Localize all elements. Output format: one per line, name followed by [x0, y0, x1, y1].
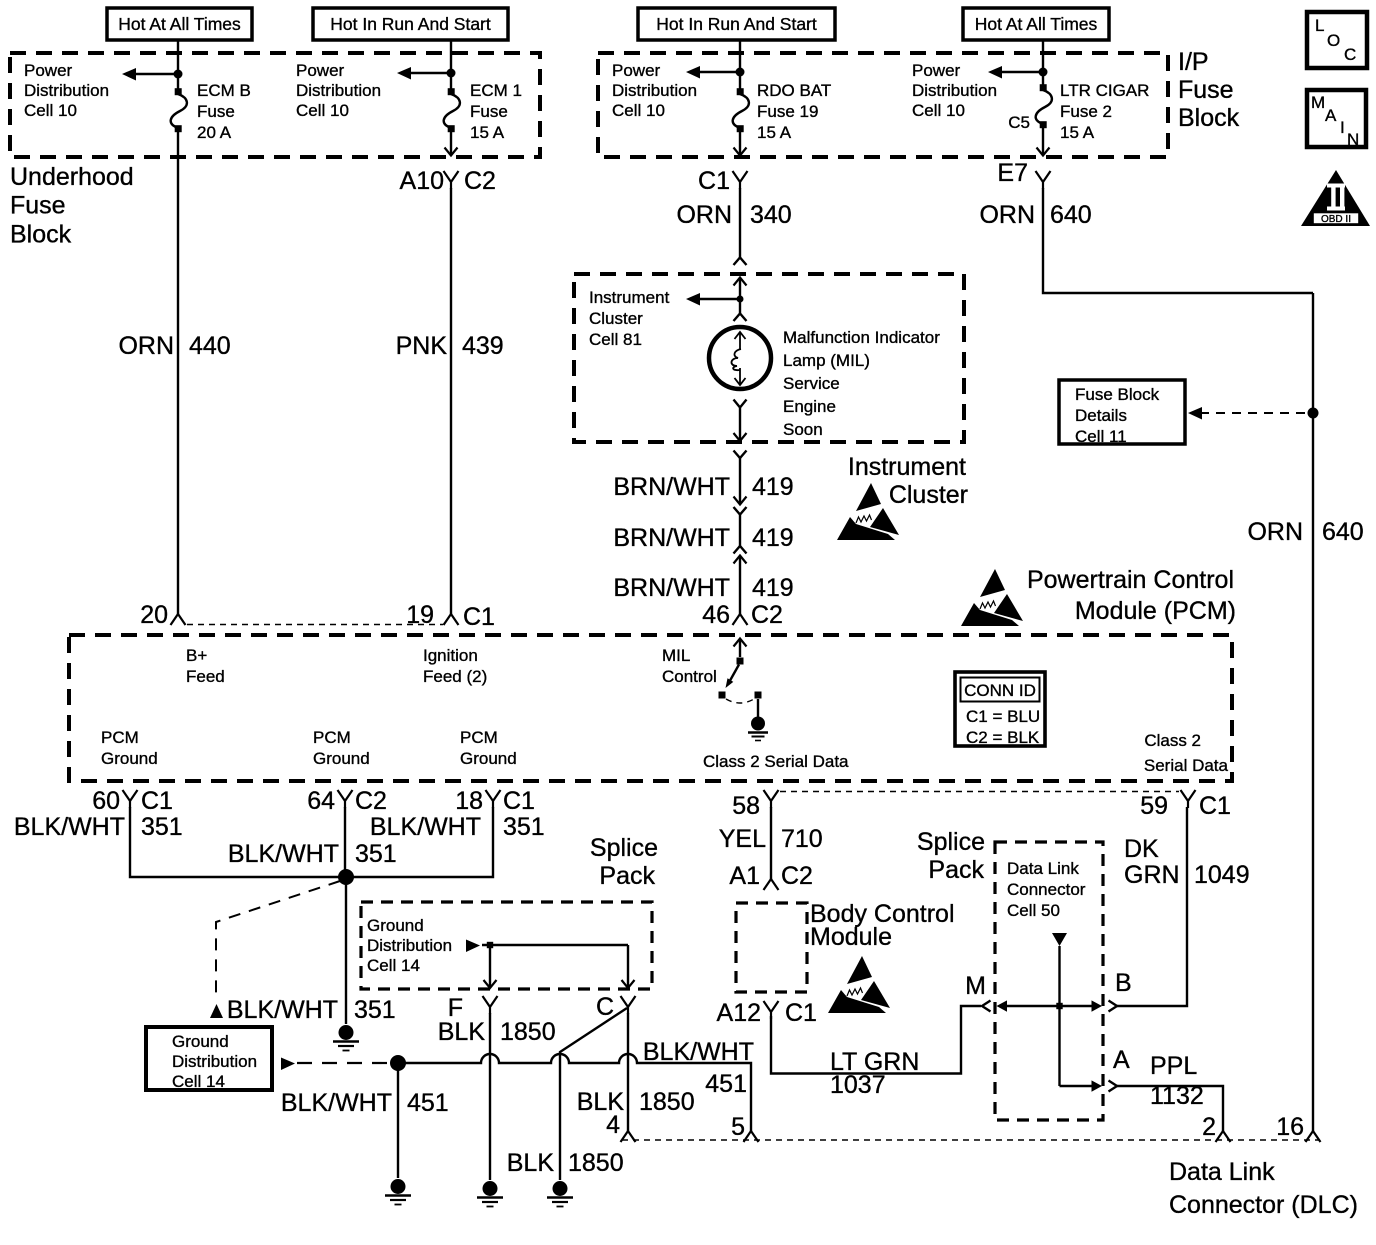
svg-text:Cell 10: Cell 10	[296, 101, 349, 120]
pin A12 C1 of BCM	[717, 999, 817, 1027]
label BLK/WHT 451 (ground stub)	[281, 1089, 449, 1117]
svg-text:CONN ID: CONN ID	[964, 681, 1036, 700]
svg-text:451: 451	[705, 1070, 747, 1098]
wire splice to ground	[345, 877, 347, 1024]
label Underhood Fuse Block	[10, 163, 134, 248]
label BLK 1850 (lower ground wire)	[507, 1149, 624, 1177]
label BLK/WHT 351 (ground stub)	[227, 996, 396, 1024]
wire BRN/WHT 419 segment 3	[739, 556, 741, 615]
connector C1	[698, 167, 747, 195]
label DK GRN 1049	[1124, 835, 1250, 889]
wire C down to DLC pin 4	[627, 1013, 629, 1131]
svg-text:Details: Details	[1075, 406, 1127, 425]
svg-text:Instrument: Instrument	[848, 453, 966, 481]
svg-text:Lamp (MIL): Lamp (MIL)	[783, 351, 870, 370]
svg-text:Distribution: Distribution	[172, 1052, 257, 1071]
svg-text:Ignition: Ignition	[423, 646, 478, 665]
svg-text:15 A: 15 A	[757, 123, 792, 142]
svg-text:Connector (DLC): Connector (DLC)	[1169, 1191, 1358, 1219]
svg-text:Control: Control	[662, 667, 717, 686]
PCM dashed box	[69, 635, 1232, 781]
chevron below node	[734, 314, 747, 322]
svg-text:Instrument: Instrument	[589, 288, 670, 307]
svg-text:PPL: PPL	[1150, 1052, 1197, 1080]
svg-text:440: 440	[189, 332, 231, 360]
svg-text:Splice: Splice	[590, 834, 658, 862]
svg-text:451: 451	[407, 1089, 449, 1117]
svg-text:Cell 10: Cell 10	[24, 101, 77, 120]
svg-text:Cell 81: Cell 81	[589, 330, 642, 349]
svg-text:1037: 1037	[830, 1071, 886, 1099]
ESD symbol (PCM)	[961, 569, 1023, 626]
svg-text:Pack: Pack	[928, 856, 984, 884]
svg-text:C1: C1	[698, 167, 730, 195]
svg-text:46: 46	[702, 601, 730, 629]
svg-text:Engine: Engine	[783, 397, 836, 416]
pin B connector	[1109, 969, 1132, 1012]
svg-text:Hot At All Times: Hot At All Times	[975, 14, 1098, 34]
label MIL Control	[662, 646, 717, 686]
arrow from Ground Distribution box	[281, 1058, 392, 1071]
svg-text:Fuse 19: Fuse 19	[757, 102, 818, 121]
svg-text:Cell 14: Cell 14	[367, 956, 420, 975]
svg-text:Module: Module	[810, 923, 892, 951]
svg-text:Fuse 2: Fuse 2	[1060, 102, 1112, 121]
Ground Distribution Cell 14 dashed box (upper)	[361, 902, 652, 989]
header box Hot In Run And Start (right)	[638, 8, 835, 40]
label RDO BAT Fuse 19 15 A	[757, 81, 831, 142]
svg-text:C1: C1	[463, 603, 495, 631]
svg-text:L: L	[1315, 16, 1324, 35]
svg-text:BRN/WHT: BRN/WHT	[613, 473, 730, 501]
arrow to Power Distribution (3)	[686, 66, 740, 79]
label BRN/WHT 419 (2)	[613, 524, 793, 552]
svg-text:GRN: GRN	[1124, 861, 1180, 889]
svg-text:Ground: Ground	[101, 749, 158, 768]
wire from Hot In Run And Start to fuse RDO BAT	[739, 40, 741, 89]
label Data Link Connector (DLC)	[1169, 1158, 1358, 1219]
pin A connector	[1109, 1046, 1131, 1092]
svg-text:Power: Power	[24, 61, 73, 80]
svg-text:C: C	[596, 993, 614, 1021]
svg-text:C1: C1	[503, 787, 535, 815]
svg-text:5: 5	[731, 1113, 745, 1141]
svg-text:Cell 50: Cell 50	[1007, 901, 1060, 920]
svg-text:M: M	[1311, 93, 1325, 112]
svg-text:Splice: Splice	[917, 828, 985, 856]
svg-text:Distribution: Distribution	[24, 81, 109, 100]
label PNK 439	[396, 332, 504, 360]
ground G-F	[477, 1181, 503, 1207]
wire from Hot At All Times to fuse LTR CIGAR	[1042, 40, 1044, 85]
svg-text:PCM: PCM	[460, 728, 498, 747]
svg-text:Cluster: Cluster	[589, 309, 643, 328]
svg-text:1132: 1132	[1150, 1082, 1204, 1110]
svg-text:BLK/WHT: BLK/WHT	[281, 1089, 392, 1117]
svg-text:Distribution: Distribution	[912, 81, 997, 100]
svg-text:439: 439	[462, 332, 504, 360]
svg-text:Hot In Run And Start: Hot In Run And Start	[656, 14, 817, 34]
svg-text:Powertrain Control: Powertrain Control	[1027, 566, 1234, 594]
svg-text:C2: C2	[464, 167, 496, 195]
dashed arrow to Fuse Block Details	[1188, 407, 1307, 420]
svg-text:Fuse: Fuse	[470, 102, 508, 121]
arrow to Instrument Cluster label	[686, 293, 744, 306]
svg-text:4: 4	[606, 1111, 620, 1139]
svg-text:Hot At All Times: Hot At All Times	[118, 14, 241, 34]
wire fuse RDO BAT to connector, arrow	[734, 131, 747, 156]
connector A1 C2 of BCM	[729, 862, 813, 890]
double arrow M to B	[997, 1000, 1103, 1011]
svg-text:351: 351	[354, 996, 396, 1024]
fuse RDO BAT Fuse 19 15 A	[733, 88, 749, 132]
lamp MIL bulb	[709, 327, 771, 389]
svg-text:Fuse Block: Fuse Block	[1075, 385, 1160, 404]
svg-text:20 A: 20 A	[197, 123, 232, 142]
header box Hot At All Times (right)	[963, 8, 1109, 40]
svg-text:ORN: ORN	[118, 332, 174, 360]
wire F down to ground	[489, 1013, 491, 1180]
wire PNK 439 (A10 to pin 19)	[450, 188, 452, 614]
svg-text:710: 710	[781, 825, 823, 853]
svg-text:BLK/WHT: BLK/WHT	[643, 1038, 754, 1066]
svg-text:Class 2: Class 2	[1144, 731, 1201, 750]
svg-text:Underhood: Underhood	[10, 163, 134, 191]
svg-text:PNK: PNK	[396, 332, 448, 360]
header box Hot At All Times (left)	[107, 8, 252, 40]
svg-text:I/P: I/P	[1178, 48, 1209, 76]
label Body Control Module	[810, 900, 955, 951]
wire into lamp	[739, 278, 741, 314]
Ground Distribution Cell 14 box (solid)	[146, 1027, 272, 1091]
label YEL 710	[719, 825, 823, 853]
svg-text:I: I	[1340, 118, 1345, 137]
wire from Hot At All Times to fuse ECM B	[177, 40, 179, 89]
label Instrument Cluster Cell 81	[589, 288, 670, 349]
svg-text:BLK/WHT: BLK/WHT	[370, 813, 481, 841]
svg-text:Hot In Run And Start: Hot In Run And Start	[330, 14, 491, 34]
pin 20 of PCM	[140, 601, 185, 629]
svg-text:Power: Power	[612, 61, 661, 80]
ground G451	[385, 1179, 411, 1205]
svg-text:B: B	[1115, 969, 1132, 997]
svg-text:64: 64	[307, 787, 335, 815]
svg-text:Pack: Pack	[599, 862, 655, 890]
label BRN/WHT 419 (1)	[613, 473, 793, 501]
svg-text:RDO BAT: RDO BAT	[757, 81, 831, 100]
Power Distribution Cell 10 (box 4)	[912, 61, 997, 120]
svg-text:YEL: YEL	[719, 825, 766, 853]
Body Control Module dashed box	[736, 903, 807, 992]
pin M connector	[965, 972, 990, 1012]
label Malfunction Indicator Lamp (MIL) Service Engine Soon	[783, 328, 940, 439]
DLC pin 2	[1202, 1113, 1230, 1142]
wire ORN 340 down to instrument cluster	[739, 188, 741, 258]
svg-text:A1: A1	[729, 862, 760, 890]
label LTR CIGAR Fuse 2 15 A	[1060, 81, 1149, 142]
svg-text:Fuse: Fuse	[197, 102, 235, 121]
svg-text:60: 60	[92, 787, 120, 815]
DLC dashed top line	[622, 1139, 1319, 1141]
pin 64 C2 of PCM	[307, 787, 387, 815]
arrow into pin A	[1060, 1080, 1103, 1091]
inline connector 2 (chevron + arrow up)	[734, 546, 747, 564]
svg-text:15 A: 15 A	[1060, 123, 1095, 142]
wire pin64 down to splice	[344, 807, 346, 877]
label BLK/WHT 351 (left)	[14, 813, 183, 841]
ground G-C	[547, 1181, 573, 1207]
svg-text:Data Link: Data Link	[1169, 1158, 1275, 1186]
splice pack junction mark	[1056, 1003, 1062, 1009]
svg-text:419: 419	[752, 574, 794, 602]
ESD symbol (instrument cluster)	[837, 483, 899, 540]
junction node ground bus	[390, 1055, 406, 1071]
svg-text:BLK: BLK	[507, 1149, 555, 1177]
arrow to Power Distribution (4)	[988, 66, 1043, 79]
svg-text:C: C	[1344, 45, 1356, 64]
svg-text:Power: Power	[912, 61, 961, 80]
Instrument Cluster dashed box	[574, 274, 964, 442]
DLC pin 5	[731, 1113, 758, 1142]
svg-text:C1: C1	[1199, 792, 1231, 820]
svg-text:Connector: Connector	[1007, 880, 1086, 899]
MAIN box	[1307, 90, 1366, 149]
ground bus wire with hops	[398, 1054, 751, 1131]
svg-text:Cell 11: Cell 11	[1075, 427, 1127, 446]
svg-text:59: 59	[1140, 792, 1168, 820]
label PCM Ground (2)	[313, 728, 370, 768]
svg-text:58: 58	[732, 792, 760, 820]
label ORN 440	[118, 332, 230, 360]
svg-text:20: 20	[140, 601, 168, 629]
svg-text:ECM B: ECM B	[197, 81, 251, 100]
junction node	[736, 68, 745, 77]
wire junction down to ground	[397, 1063, 399, 1178]
label Class 2 Serial Data (right)	[1144, 731, 1229, 775]
connector E7	[997, 159, 1050, 189]
label PCM Ground (1)	[101, 728, 158, 768]
svg-text:C2: C2	[781, 862, 813, 890]
label Splice Pack (right)	[917, 828, 985, 884]
junction node	[174, 70, 183, 79]
svg-text:Fuse: Fuse	[10, 192, 66, 220]
label LT GRN 1037	[830, 1048, 919, 1099]
svg-text:DK: DK	[1124, 835, 1159, 863]
svg-text:Distribution: Distribution	[367, 936, 452, 955]
svg-text:ORN: ORN	[676, 201, 732, 229]
wire BRN/WHT 419 segment 2	[739, 515, 741, 547]
svg-text:1850: 1850	[568, 1149, 624, 1177]
wire BRN/WHT 419 segment 1	[739, 458, 741, 505]
ESD symbol (BCM)	[828, 956, 890, 1013]
svg-text:A10: A10	[400, 167, 444, 195]
Data Link Connector Cell 50 dashed box	[995, 842, 1103, 1120]
junction node	[447, 69, 456, 78]
svg-text:B+: B+	[186, 646, 207, 665]
svg-text:18: 18	[455, 787, 483, 815]
label PCM Ground (3)	[460, 728, 517, 768]
svg-text:ORN: ORN	[1247, 518, 1303, 546]
thin dashed link pin20-pin19	[187, 624, 443, 626]
pin 18 C1 of PCM	[455, 787, 535, 815]
pin 46 C2 of PCM	[702, 601, 783, 629]
Underhood Fuse Block dashed box	[10, 53, 540, 157]
svg-text:640: 640	[1050, 201, 1092, 229]
svg-text:C1 = BLU: C1 = BLU	[966, 707, 1040, 726]
svg-text:419: 419	[752, 524, 794, 552]
svg-text:1850: 1850	[639, 1088, 695, 1116]
svg-text:BLK/WHT: BLK/WHT	[14, 813, 125, 841]
svg-text:351: 351	[355, 840, 397, 868]
connector below lamp	[734, 400, 747, 442]
svg-text:419: 419	[752, 473, 794, 501]
svg-text:C1: C1	[141, 787, 173, 815]
svg-text:MIL: MIL	[662, 646, 690, 665]
label BLK 1850 (F wire)	[438, 1018, 556, 1046]
label Powertrain Control Module (PCM)	[1027, 566, 1236, 625]
svg-text:C2: C2	[355, 787, 387, 815]
svg-text:LTR CIGAR: LTR CIGAR	[1060, 81, 1149, 100]
Power Distribution Cell 10 (box 3)	[612, 61, 697, 120]
diagonal wire from pin C to ground leg	[560, 1008, 627, 1180]
svg-text:C5: C5	[1008, 113, 1030, 132]
wire PPL 1132	[1117, 1086, 1223, 1131]
svg-text:E7: E7	[997, 159, 1028, 187]
svg-text:Ground: Ground	[313, 749, 370, 768]
svg-text:Cell 10: Cell 10	[912, 101, 965, 120]
wire LT GRN 1037	[771, 1006, 981, 1074]
svg-text:2: 2	[1202, 1113, 1216, 1141]
svg-text:Class 2 Serial Data: Class 2 Serial Data	[703, 752, 849, 771]
svg-text:Data Link: Data Link	[1007, 859, 1079, 878]
ground G351	[333, 1025, 359, 1051]
svg-text:Cell 10: Cell 10	[612, 101, 665, 120]
svg-text:C2: C2	[751, 601, 783, 629]
svg-text:Malfunction Indicator: Malfunction Indicator	[783, 328, 940, 347]
label Instrument Cluster (big)	[848, 453, 968, 509]
wire fuse LTR CIGAR to connector, arrow	[1037, 127, 1050, 156]
svg-text:Fuse: Fuse	[1178, 76, 1234, 104]
svg-text:Power: Power	[296, 61, 345, 80]
svg-text:640: 640	[1322, 518, 1364, 546]
svg-text:Feed (2): Feed (2)	[423, 667, 487, 686]
Fuse Block Details Cell 11 box	[1059, 380, 1185, 446]
label Ignition Feed (2)	[423, 646, 487, 686]
label ECM 1 Fuse 15 A	[470, 81, 522, 142]
arrow to Power Distribution (1)	[122, 68, 178, 81]
svg-text:O: O	[1327, 31, 1340, 50]
label ORN 640 (right rail)	[1247, 518, 1363, 546]
arrow and feed inside ground distribution box	[466, 940, 635, 989]
DLC pin 4	[606, 1111, 635, 1142]
pin 60 C1 of PCM	[92, 787, 173, 815]
svg-text:BLK/WHT: BLK/WHT	[227, 996, 338, 1024]
svg-text:OBD II: OBD II	[1321, 214, 1351, 225]
splice pack feed triangle	[1052, 933, 1067, 946]
label ORN 640 (top)	[979, 201, 1091, 229]
connector A10 C2	[400, 167, 496, 195]
MIL control switch	[719, 639, 769, 741]
svg-text:Service: Service	[783, 374, 840, 393]
label BLK/WHT 451 (to DLC pin 5)	[643, 1038, 754, 1098]
svg-text:Module (PCM): Module (PCM)	[1075, 597, 1236, 625]
svg-text:Ground: Ground	[460, 749, 517, 768]
wire DK GRN 1049	[1117, 807, 1187, 1006]
svg-text:A: A	[1113, 1046, 1130, 1074]
svg-text:Ground: Ground	[172, 1032, 229, 1051]
svg-text:Ground: Ground	[367, 916, 424, 935]
svg-text:A12: A12	[717, 999, 761, 1027]
LOC box	[1307, 12, 1367, 68]
label ORN 340	[676, 201, 791, 229]
pin F connector	[448, 994, 498, 1022]
svg-text:Feed: Feed	[186, 667, 225, 686]
svg-text:Serial Data: Serial Data	[1144, 756, 1229, 775]
svg-text:Cluster: Cluster	[889, 481, 968, 509]
svg-text:340: 340	[750, 201, 792, 229]
label I/P Fuse Block	[1178, 48, 1240, 132]
fuse ECM 1 15 A	[444, 88, 460, 132]
label BLK 1850 (pin 4 wire)	[577, 1088, 695, 1116]
svg-text:Soon: Soon	[783, 420, 823, 439]
wire ORN 640 from E7 to right rail	[1043, 188, 1313, 293]
I/P Fuse Block dashed box	[598, 53, 1168, 157]
Power Distribution Cell 10 (box 1)	[24, 61, 109, 120]
label BRN/WHT 419 (3)	[613, 574, 793, 602]
inline connector 1 (arrow down + chevron)	[734, 497, 747, 515]
pin C connector	[596, 993, 636, 1021]
arrow to Power Distribution (2)	[397, 67, 451, 80]
svg-text:351: 351	[141, 813, 183, 841]
wire pin60 down and across	[130, 807, 339, 877]
pin 19 C1 of PCM	[406, 601, 495, 631]
Power Distribution Cell 10 (box 2)	[296, 61, 381, 120]
header box Hot In Run And Start (left)	[313, 8, 508, 40]
svg-text:351: 351	[503, 813, 545, 841]
svg-text:Distribution: Distribution	[296, 81, 381, 100]
svg-text:ECM 1: ECM 1	[470, 81, 522, 100]
thin dashed link pin58-pin59	[780, 791, 1179, 793]
label ECM B Fuse 20 A	[197, 81, 251, 142]
svg-text:PCM: PCM	[313, 728, 351, 747]
label BLK/WHT 351 (right)	[370, 813, 545, 841]
pin 59 C1 of PCM	[1140, 790, 1231, 820]
svg-text:15 A: 15 A	[470, 123, 505, 142]
wire ORN 640 right rail down to DLC pin 16	[1312, 293, 1314, 1131]
svg-text:Block: Block	[1178, 104, 1240, 132]
splice junction node S351	[338, 869, 354, 885]
label B+ Feed	[186, 646, 225, 686]
DLC pin 16	[1276, 1113, 1320, 1142]
CONN ID box	[955, 672, 1045, 747]
svg-text:C2 = BLK: C2 = BLK	[966, 728, 1040, 747]
label PPL 1132	[1150, 1052, 1204, 1110]
svg-text:BRN/WHT: BRN/WHT	[613, 574, 730, 602]
wire ORN 440 (fuse to pin 20)	[177, 131, 179, 614]
svg-text:BRN/WHT: BRN/WHT	[613, 524, 730, 552]
svg-text:1850: 1850	[500, 1018, 556, 1046]
wire YEL 710	[770, 807, 772, 879]
svg-text:Cell 14: Cell 14	[172, 1072, 225, 1091]
svg-text:C1: C1	[785, 999, 817, 1027]
pin 58 of PCM	[732, 790, 778, 820]
wire pin18 down and across	[353, 807, 493, 877]
connector pair above Instrument Cluster	[734, 258, 747, 286]
label Splice Pack (left)	[590, 834, 658, 890]
svg-text:Distribution: Distribution	[612, 81, 697, 100]
svg-text:BLK: BLK	[438, 1018, 486, 1046]
svg-text:N: N	[1347, 130, 1359, 149]
